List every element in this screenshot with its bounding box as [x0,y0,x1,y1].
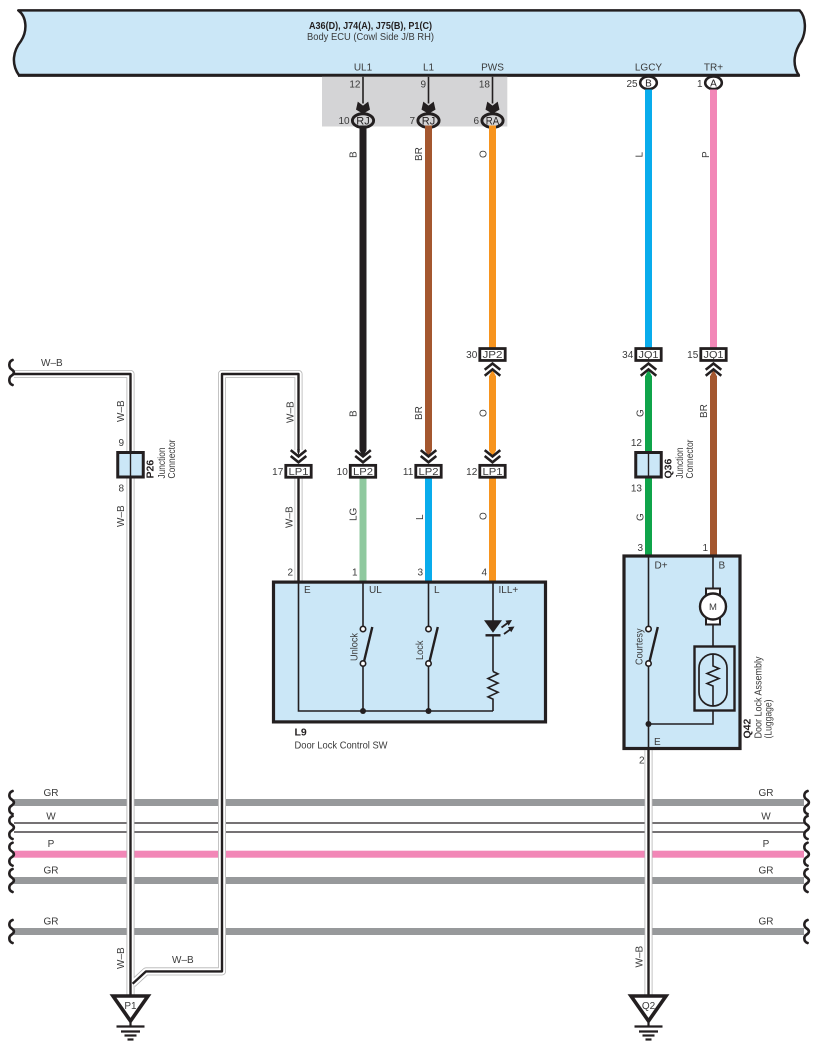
svg-text:GR: GR [44,788,59,799]
svg-text:LG: LG [349,507,360,521]
svg-text:O: O [479,512,490,520]
svg-text:P1: P1 [124,1001,137,1012]
svg-text:GR: GR [759,917,774,928]
svg-text:Body ECU (Cowl Side J/B RH): Body ECU (Cowl Side J/B RH) [307,32,434,43]
svg-text:W–B: W–B [116,400,127,422]
svg-text:PWS: PWS [481,63,504,74]
svg-text:15: 15 [687,350,699,361]
svg-text:18: 18 [479,80,491,91]
svg-text:W–B: W–B [172,955,194,966]
svg-text:30: 30 [466,350,478,361]
svg-text:W–B: W–B [286,401,297,423]
svg-text:Connector: Connector [167,439,178,479]
svg-text:P: P [763,839,770,850]
svg-text:GR: GR [759,788,774,799]
svg-text:4: 4 [481,568,487,579]
svg-text:L: L [434,585,440,596]
svg-text:Connector: Connector [685,439,696,479]
svg-text:Unlock: Unlock [350,632,361,661]
svg-text:B: B [719,561,726,572]
svg-text:E: E [654,737,661,748]
svg-text:TR+: TR+ [704,63,723,74]
svg-text:D+: D+ [655,561,668,572]
svg-text:6: 6 [474,116,480,127]
svg-text:13: 13 [631,484,643,495]
svg-text:W–B: W–B [635,946,646,968]
svg-text:G: G [636,513,647,521]
svg-text:L1: L1 [423,63,435,74]
svg-text:A36(D), J74(A), J75(B), P1(C): A36(D), J74(A), J75(B), P1(C) [309,21,432,32]
svg-text:1: 1 [702,543,708,554]
svg-text:8: 8 [118,484,124,495]
svg-text:JQ1: JQ1 [704,349,724,361]
svg-text:1: 1 [697,79,703,90]
svg-text:P: P [48,839,55,850]
svg-text:L9: L9 [295,727,307,739]
svg-text:P26: P26 [145,460,157,479]
svg-text:(Luggage): (Luggage) [764,700,775,739]
svg-text:3: 3 [637,543,643,554]
svg-text:25: 25 [626,79,638,90]
svg-text:JP2: JP2 [483,349,503,361]
svg-text:M: M [709,602,717,613]
svg-text:12: 12 [349,80,361,91]
svg-text:ILL+: ILL+ [499,585,519,596]
svg-text:Door Lock Control SW: Door Lock Control SW [295,741,388,752]
svg-text:LP1: LP1 [483,466,503,478]
svg-text:17: 17 [272,467,284,478]
svg-text:O: O [479,150,490,158]
svg-text:B: B [645,78,652,89]
svg-text:7: 7 [410,116,416,127]
svg-text:34: 34 [622,350,634,361]
svg-text:BR: BR [414,406,425,420]
svg-text:W–B: W–B [116,505,127,527]
svg-text:W–B: W–B [285,506,296,528]
svg-text:10: 10 [337,467,349,478]
svg-text:Q42: Q42 [742,718,754,738]
svg-text:LP1: LP1 [289,466,309,478]
svg-text:L: L [415,514,426,520]
svg-text:GR: GR [44,866,59,877]
svg-text:LP2: LP2 [419,466,439,478]
svg-text:12: 12 [466,467,478,478]
svg-text:LGCY: LGCY [635,63,663,74]
svg-text:P: P [701,151,712,158]
svg-text:UL: UL [369,585,382,596]
svg-text:12: 12 [631,438,643,449]
svg-text:GR: GR [759,866,774,877]
svg-text:3: 3 [417,568,423,579]
svg-text:B: B [349,410,360,417]
svg-text:GR: GR [44,917,59,928]
svg-text:Q2: Q2 [642,1001,656,1012]
svg-text:Lock: Lock [415,640,426,660]
svg-text:UL1: UL1 [354,63,373,74]
svg-text:A: A [710,78,717,89]
svg-text:9: 9 [118,438,124,449]
svg-text:2: 2 [287,568,293,579]
svg-text:B: B [349,151,360,158]
svg-text:W–B: W–B [41,358,63,369]
svg-text:BR: BR [699,404,710,418]
svg-text:JQ1: JQ1 [639,349,659,361]
svg-text:BR: BR [414,147,425,161]
svg-text:W–B: W–B [116,947,127,969]
svg-text:L: L [635,152,646,158]
svg-text:1: 1 [352,568,358,579]
svg-text:2: 2 [639,756,645,767]
svg-text:E: E [304,585,311,596]
svg-text:9: 9 [420,80,426,91]
svg-text:O: O [479,409,490,417]
svg-text:W: W [761,812,771,823]
svg-text:Q36: Q36 [663,458,675,478]
svg-text:G: G [636,409,647,417]
svg-text:Courtesy: Courtesy [635,629,646,666]
svg-text:10: 10 [338,116,350,127]
svg-text:11: 11 [403,467,414,478]
svg-text:W: W [46,812,56,823]
svg-text:LP2: LP2 [353,466,373,478]
